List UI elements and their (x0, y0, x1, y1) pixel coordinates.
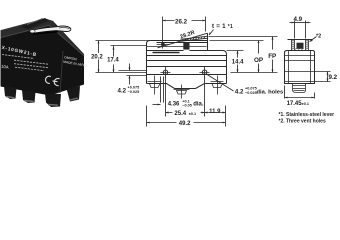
svg-text:dia.: dia. (193, 101, 204, 107)
svg-text:−0.025: −0.025 (245, 91, 257, 95)
svg-text:26.2: 26.2 (175, 19, 188, 26)
svg-text:t = 1 *1: t = 1 *1 (212, 23, 233, 30)
svg-text:OP: OP (254, 57, 263, 64)
svg-text:*1. Stainless-steel lever: *1. Stainless-steel lever (279, 112, 335, 118)
svg-text:11.9: 11.9 (209, 109, 221, 115)
svg-text:14.4: 14.4 (232, 59, 244, 65)
svg-text:9.2: 9.2 (329, 74, 338, 81)
svg-text:*2. Three vent holes: *2. Three vent holes (279, 118, 326, 124)
svg-text:20.2: 20.2 (91, 55, 103, 61)
svg-text:17.4: 17.4 (107, 58, 119, 64)
svg-text:17.45±0.1: 17.45±0.1 (287, 101, 309, 107)
svg-text:−0.05: −0.05 (182, 104, 192, 108)
svg-text:−0.025: −0.025 (128, 90, 140, 94)
svg-text:FP: FP (268, 53, 276, 60)
svg-text:dia. holes: dia. holes (257, 90, 284, 96)
svg-text:25.4: 25.4 (174, 111, 186, 117)
svg-text:4.2: 4.2 (118, 88, 127, 95)
svg-text:±0.1: ±0.1 (189, 112, 196, 116)
svg-text:4.36: 4.36 (168, 101, 180, 107)
svg-text:*2: *2 (316, 34, 321, 40)
svg-text:49.2: 49.2 (179, 121, 191, 127)
svg-text:4.9: 4.9 (294, 16, 303, 23)
svg-text:4.2: 4.2 (235, 89, 244, 96)
